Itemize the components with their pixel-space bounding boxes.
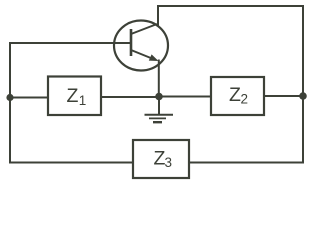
node emitter junction dot	[155, 93, 163, 101]
transistor emitter arrowhead	[149, 54, 159, 61]
wire Z1 to ground node	[101, 96, 159, 98]
svg-text:1: 1	[79, 93, 87, 108]
wire Z2 to node B	[264, 95, 303, 97]
impedance Z1	[48, 77, 101, 116]
ground	[145, 97, 174, 123]
impedance Z3	[133, 140, 189, 178]
wire node A to Z1	[10, 97, 48, 99]
transistor collector lead	[131, 24, 157, 34]
transistor base bar	[130, 29, 133, 56]
svg-text:Z: Z	[229, 84, 241, 106]
wire collector vertical	[157, 6, 159, 25]
node B junction dot	[299, 92, 307, 100]
transistor envelope circle	[114, 21, 168, 71]
transistor Q1 (NPN)	[114, 21, 168, 71]
wire emitter vertical	[158, 61, 160, 97]
wire left vertical	[9, 43, 11, 163]
wire top horizontal	[158, 5, 303, 7]
wire right vertical	[302, 6, 304, 163]
wire bottom left	[10, 162, 133, 164]
svg-text:2: 2	[241, 92, 249, 107]
impedance Z2	[211, 77, 264, 115]
wire bottom right	[189, 162, 303, 164]
wire ground node to Z2	[159, 96, 211, 98]
svg-text:Z: Z	[67, 85, 79, 107]
wire base-to-left feedback	[10, 42, 131, 44]
node A junction dot	[6, 94, 13, 101]
svg-text:3: 3	[165, 155, 173, 170]
transistor emitter lead	[131, 50, 152, 59]
